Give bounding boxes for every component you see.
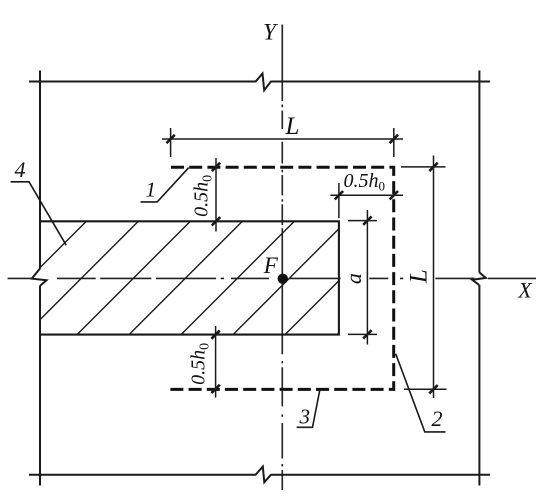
break symbol on right border	[472, 272, 486, 284]
svg-text:3: 3	[299, 405, 311, 429]
leader and label 2	[396, 354, 446, 432]
svg-text:2: 2	[432, 406, 443, 431]
ticks 0.5h0 lower	[211, 330, 219, 393]
Y axis (dash-dot centerline)	[281, 25, 283, 491]
leader and label 4	[11, 182, 67, 245]
slab border left edge	[39, 71, 41, 486]
dimension 0.5h0 (upper left, vertical)	[215, 158, 217, 232]
hatched loaded area (element 4) outline	[40, 221, 339, 334]
slab border top edge	[29, 81, 490, 83]
dimension L (top): dimension line	[162, 128, 403, 157]
dimension 0.5h0 (top right, horizontal)	[330, 183, 403, 218]
ticks a	[363, 216, 371, 338]
svg-text:4: 4	[15, 157, 26, 182]
extension lines	[170, 128, 172, 157]
svg-text:L: L	[285, 113, 300, 140]
critical punching contour (dashed, open at left)	[169, 167, 394, 389]
tick marks for L (top)	[166, 135, 398, 143]
svg-text:F: F	[263, 253, 279, 278]
extension line from hatch corner	[338, 183, 340, 218]
svg-text:L: L	[405, 269, 432, 284]
extension lines	[401, 166, 446, 168]
ticks 0.5h0 top right	[335, 191, 398, 199]
dimension L (right side, vertical)	[401, 156, 447, 399]
dimension a (vertical, right of hatch)	[348, 210, 377, 345]
break symbol on left border	[32, 268, 47, 286]
svg-text:1: 1	[146, 178, 157, 202]
svg-text:X: X	[517, 277, 533, 302]
slab border right edge	[478, 71, 480, 486]
leader and label 1	[141, 168, 189, 202]
dimension 0.5h0 (lower left, vertical)	[215, 326, 217, 398]
break symbol on top border	[256, 74, 271, 91]
slab border bottom edge	[29, 474, 490, 476]
svg-text:Y: Y	[263, 19, 278, 44]
X axis (dash-dot centerline)	[8, 277, 536, 279]
break symbol on bottom border	[256, 467, 272, 483]
svg-text:a: a	[341, 273, 366, 284]
ticks L right	[429, 163, 437, 394]
leader and label 3	[297, 390, 320, 427]
ticks 0.5h0 upper	[212, 163, 220, 226]
point F (concentrated force)	[278, 274, 288, 284]
extension lines from hatch corners	[348, 220, 377, 222]
